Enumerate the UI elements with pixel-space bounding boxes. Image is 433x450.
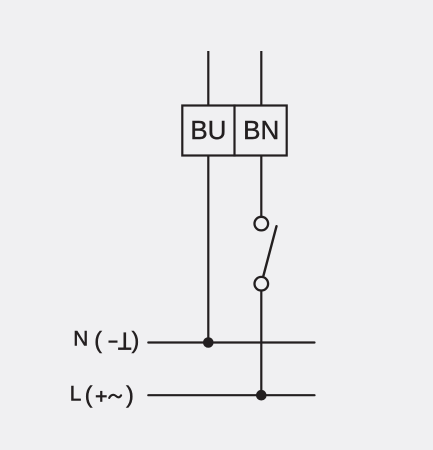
- svg-text:N: N: [73, 328, 88, 351]
- svg-text:BN: BN: [243, 115, 279, 145]
- svg-text:BU: BU: [190, 115, 226, 145]
- svg-text:): ): [132, 327, 140, 353]
- svg-text:(: (: [94, 327, 102, 353]
- svg-text:(: (: [85, 382, 93, 408]
- svg-text:): ): [126, 382, 134, 408]
- svg-text:L: L: [70, 383, 82, 406]
